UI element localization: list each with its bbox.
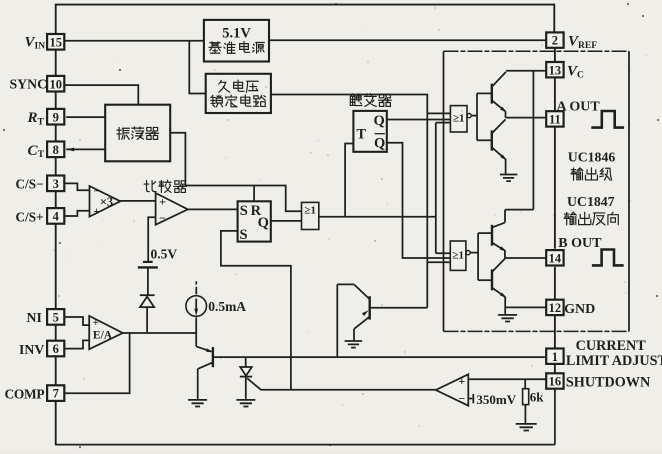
svg-text:≥1: ≥1 <box>453 112 465 124</box>
svg-text:SHUTDOWN: SHUTDOWN <box>566 374 651 390</box>
op-amp error amplifier EA <box>89 316 123 349</box>
wire CT to oscillator <box>66 148 105 150</box>
pin 15 VIN <box>47 34 64 50</box>
transistor Q4 totem A lower <box>477 139 492 141</box>
svg-text:C/S−: C/S− <box>16 177 44 192</box>
svg-text:S: S <box>239 227 247 243</box>
svg-text:LIMIT ADJUST: LIMIT ADJUST <box>566 353 662 369</box>
pin 3 CS- <box>47 176 64 192</box>
svg-text:Q: Q <box>258 215 269 231</box>
wire COMP pin feedback to EA output <box>65 333 130 393</box>
ground totem A <box>500 175 518 182</box>
op-amp PWM comparator <box>156 193 188 225</box>
svg-text:≥1: ≥1 <box>452 250 464 262</box>
svg-text:≥1: ≥1 <box>304 205 316 217</box>
wire totem B base drive line <box>477 233 479 280</box>
diode D1 below 0.5V <box>140 294 155 296</box>
pin 9 RT <box>47 109 64 125</box>
wire left pin column <box>55 49 57 444</box>
pin 2 VREF <box>546 32 563 47</box>
wire diode D2 branch from current limit line <box>245 357 247 367</box>
wire 5.1V output to pin2 VREF <box>269 39 545 41</box>
ground totem B <box>498 315 517 322</box>
transistor Q3 totem A upper <box>477 92 492 94</box>
pin 7 COMP <box>47 385 64 401</box>
bubble B NOR output <box>466 251 470 255</box>
svg-text:0.5V: 0.5V <box>151 246 178 261</box>
svg-text:×3: ×3 <box>100 195 113 209</box>
wire EA output line <box>123 332 196 334</box>
svg-text:E/A: E/A <box>93 330 113 342</box>
text comparator label CJK <box>144 181 156 192</box>
svg-text:12: 12 <box>549 301 562 315</box>
svg-text:16: 16 <box>549 375 562 389</box>
block undervoltage lockout box <box>206 74 271 113</box>
svg-text:COMP: COMP <box>5 386 45 401</box>
wire FF Q to A gate <box>387 119 451 121</box>
svg-text:5.1V: 5.1V <box>222 25 251 41</box>
block 5.1V reference box <box>204 20 269 62</box>
pin 1 CURRENT LIMIT ADJUST <box>546 349 563 364</box>
pin 8 CT <box>47 142 64 158</box>
wire comparator output to latch S <box>188 208 238 210</box>
transistor Q6 totem B lower <box>478 279 492 281</box>
block toggle flip-flop box <box>353 111 386 152</box>
svg-text:+: + <box>159 194 166 208</box>
wire VIN to 5.1V box <box>64 40 204 42</box>
svg-text:15: 15 <box>49 35 62 49</box>
gate A NOR <box>450 106 467 132</box>
wire 6k resistor connections <box>524 379 526 424</box>
svg-text:IN: IN <box>35 42 46 52</box>
svg-text:NI: NI <box>27 310 42 325</box>
wire branch to latch R input <box>253 186 255 202</box>
svg-text:B OUT: B OUT <box>558 236 602 251</box>
wire current limit line to pin1 <box>213 356 547 358</box>
text 350mV with reference bar <box>472 394 474 403</box>
resistor 6k <box>523 389 529 405</box>
svg-text:+: + <box>93 317 99 329</box>
svg-text:6: 6 <box>53 342 59 356</box>
wire latch lower S shutdown path <box>221 231 291 390</box>
wire B NOR output to drive line <box>470 252 478 254</box>
wire NI input to EA <box>63 317 89 325</box>
wire totem B emitter to pin12 GND <box>505 306 546 308</box>
svg-text:350mV: 350mV <box>476 392 516 407</box>
gate B NOR <box>450 241 466 270</box>
svg-text:1: 1 <box>552 350 558 364</box>
svg-text:13: 13 <box>549 63 562 77</box>
pin 6 INV <box>47 341 64 357</box>
wire VC rail pin13 to totem poles <box>505 71 546 223</box>
wire shutdown comparator - input to 350mV <box>468 398 472 400</box>
ground below 6k resistor <box>516 424 537 431</box>
wire x3 output to comparator + <box>120 200 155 202</box>
svg-text:INV: INV <box>19 342 44 357</box>
wire 0.5mA source down to PNP emitter <box>195 317 197 346</box>
current source 0.5mA <box>186 296 207 317</box>
svg-text:S: S <box>240 203 248 219</box>
pin 12 GND <box>546 300 563 315</box>
pin 10 SYNC <box>47 76 64 92</box>
gate PWM OR <box>302 202 319 229</box>
wire right pin column <box>554 48 556 391</box>
text reference supply CJK <box>209 42 221 53</box>
svg-text:CURRENT: CURRENT <box>576 338 647 354</box>
wire SYNC to oscillator <box>64 85 138 105</box>
svg-text:C: C <box>577 71 584 81</box>
svg-text:−: − <box>93 186 99 198</box>
text UVLO line1 CJK <box>219 80 230 92</box>
ground below Q1 <box>188 400 207 407</box>
wire CS- input to x3 amp <box>65 183 90 190</box>
waveform B OUT pulse <box>592 250 624 266</box>
wire B output node to pin14 <box>505 257 546 259</box>
wire 0.5mA source stub up <box>195 281 197 294</box>
wire toggle FF T input from OR line <box>345 144 353 217</box>
battery 0.5V offset source <box>143 261 153 263</box>
text trigger label CJK <box>350 94 361 106</box>
svg-text:+: + <box>93 206 100 218</box>
wire bottom rail <box>55 390 555 445</box>
svg-text:3: 3 <box>53 177 59 191</box>
svg-text:T: T <box>356 127 366 143</box>
svg-text:SYNC: SYNC <box>10 77 48 92</box>
svg-text:+: + <box>458 374 465 388</box>
ground below Q2 <box>345 341 363 348</box>
wire PWM OR output <box>319 216 436 218</box>
svg-text:9: 9 <box>53 110 59 124</box>
svg-text:Q: Q <box>374 135 385 151</box>
text oscillator CJK <box>117 127 130 139</box>
transistor Q1 PNP current limit <box>212 347 214 367</box>
text UVLO line2 CJK <box>211 95 223 107</box>
wire A output node to pin11 <box>506 117 546 119</box>
wire A NOR output to drive line <box>471 115 477 117</box>
wire FF Qbar to B gate <box>387 143 451 258</box>
wire latch Q to PWM OR gate <box>271 220 302 222</box>
wire shutdown transistor collector to current limit line <box>337 284 354 357</box>
wire oscillator output to PWM OR gate and latch R <box>170 133 301 212</box>
wire UVLO output to gates and shutdown transistor <box>271 95 451 308</box>
pin 16 SHUTDOWN <box>546 373 563 388</box>
wire VIN branch down to UVLO <box>189 41 205 94</box>
svg-text:−: − <box>159 211 166 225</box>
pin 4 CS+ <box>47 208 64 224</box>
svg-text:UC1846: UC1846 <box>568 150 616 165</box>
op-amp x3 current sense amplifier <box>90 186 121 217</box>
svg-text:REF: REF <box>578 41 597 51</box>
svg-text:T: T <box>38 118 45 128</box>
svg-text:−: − <box>458 392 465 406</box>
wire RT to oscillator <box>66 116 105 118</box>
pin 13 VC <box>546 62 563 77</box>
svg-text:5: 5 <box>53 311 59 325</box>
svg-text:A OUT: A OUT <box>557 100 601 115</box>
svg-text:C/S+: C/S+ <box>16 209 44 224</box>
wire shutdown transistor base <box>370 307 428 309</box>
arrowhead on CT wire <box>67 147 75 151</box>
wire totem A base drive line <box>476 93 478 140</box>
wire top rail VIN to pin2 <box>56 5 555 35</box>
svg-text:14: 14 <box>549 251 562 265</box>
wire OR output branch to both output gates <box>436 123 451 254</box>
block oscillator box <box>105 105 170 162</box>
bubble A NOR output <box>467 114 471 118</box>
svg-text:6k: 6k <box>530 389 545 404</box>
svg-text:T: T <box>38 150 45 160</box>
svg-text:8: 8 <box>53 143 59 157</box>
wire D2 cathode to ground and to shutdown comparator output <box>246 377 436 399</box>
svg-text:4: 4 <box>53 210 60 224</box>
pin 11 A OUT <box>546 111 563 126</box>
svg-text:10: 10 <box>49 77 62 91</box>
block PWM latch box <box>238 201 271 241</box>
wire comparator - to 0.5V source <box>148 217 155 261</box>
op-amp shutdown comparator <box>436 374 469 405</box>
wire UVLO branch to B gate input <box>427 261 450 263</box>
wire shutdown comparator + input from pin16 <box>468 378 547 380</box>
pin 5 NI <box>47 309 64 325</box>
svg-text:7: 7 <box>53 387 59 401</box>
svg-text:2: 2 <box>552 34 558 48</box>
wire INV input to EA <box>63 340 89 348</box>
svg-text:0.5mA: 0.5mA <box>208 299 246 314</box>
svg-text:UC1847: UC1847 <box>567 194 615 209</box>
svg-text:Q: Q <box>374 113 385 129</box>
wire 0.5V diode branch <box>146 268 149 333</box>
waveform A OUT pulse <box>591 111 624 128</box>
diode D2 clamp <box>240 367 252 376</box>
ground below D2 <box>236 400 255 407</box>
transistor Q2 shutdown <box>369 296 371 319</box>
output stage enclosure box <box>444 50 630 52</box>
svg-text:R: R <box>27 110 38 126</box>
transistor Q5 totem B upper <box>478 232 492 234</box>
svg-text:GND: GND <box>564 302 595 317</box>
wire CS+ input to x3 amp <box>65 211 90 216</box>
pin 14 B OUT <box>546 250 563 265</box>
